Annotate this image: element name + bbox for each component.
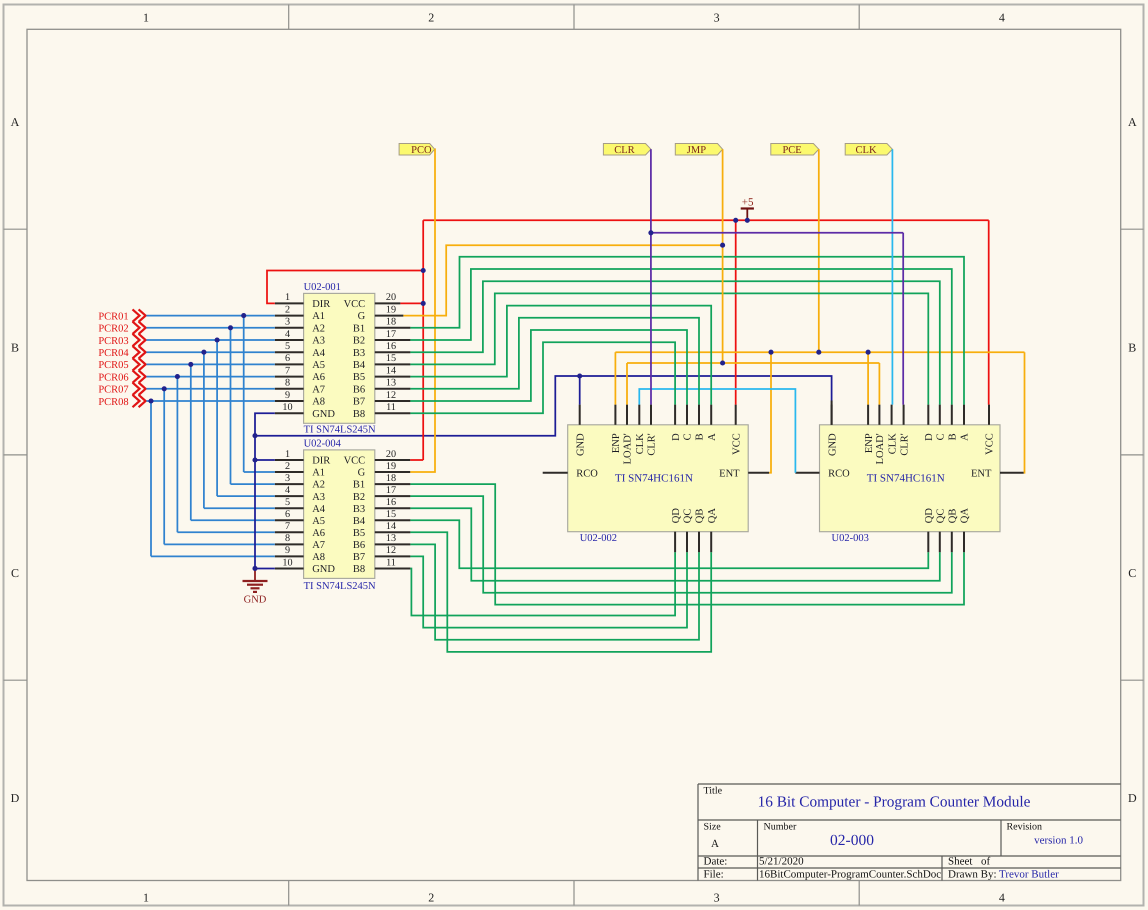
svg-text:B: B (695, 433, 706, 440)
svg-text:B4: B4 (353, 360, 366, 371)
svg-text:A7: A7 (312, 540, 325, 551)
svg-text:B: B (11, 341, 19, 355)
svg-text:File:: File: (704, 869, 724, 881)
svg-text:A: A (707, 433, 718, 441)
svg-text:U02-004: U02-004 (304, 438, 342, 449)
svg-text:11: 11 (386, 402, 396, 413)
svg-text:RCO: RCO (828, 469, 850, 480)
svg-text:QB: QB (695, 509, 706, 524)
svg-text:GND: GND (827, 433, 838, 456)
svg-text:D: D (924, 433, 935, 441)
svg-text:A2: A2 (312, 480, 325, 491)
svg-text:14: 14 (386, 365, 396, 376)
svg-text:C: C (1128, 566, 1136, 580)
svg-text:CLK: CLK (856, 145, 877, 156)
svg-text:A1: A1 (312, 468, 325, 479)
svg-text:8: 8 (285, 533, 290, 544)
svg-text:A8: A8 (312, 552, 325, 563)
svg-text:16 Bit Computer - Program Coun: 16 Bit Computer - Program Counter Module (758, 794, 1031, 811)
svg-text:DIR: DIR (312, 299, 330, 310)
svg-text:PCR04: PCR04 (98, 348, 129, 359)
svg-text:B8: B8 (353, 564, 365, 575)
svg-text:B: B (1128, 341, 1136, 355)
svg-text:B1: B1 (353, 480, 365, 491)
svg-text:B5: B5 (353, 528, 365, 539)
svg-text:B6: B6 (353, 540, 365, 551)
svg-text:13: 13 (386, 533, 396, 544)
svg-text:15: 15 (386, 353, 396, 364)
svg-text:4: 4 (285, 485, 290, 496)
svg-text:ENP: ENP (611, 433, 622, 453)
svg-text:4: 4 (999, 11, 1005, 25)
svg-text:PCE: PCE (782, 145, 801, 156)
svg-text:of: of (981, 856, 991, 868)
svg-text:B5: B5 (353, 372, 365, 383)
svg-text:B3: B3 (353, 348, 365, 359)
svg-text:2: 2 (285, 461, 290, 472)
svg-text:1: 1 (285, 292, 290, 303)
svg-text:A1: A1 (312, 311, 325, 322)
svg-text:B6: B6 (353, 384, 365, 395)
svg-text:18: 18 (386, 317, 396, 328)
svg-text:D: D (671, 433, 682, 441)
svg-text:A: A (711, 838, 719, 850)
svg-text:9: 9 (285, 390, 290, 401)
svg-text:16: 16 (386, 341, 396, 352)
svg-text:QD: QD (671, 508, 682, 524)
svg-text:1: 1 (143, 11, 149, 25)
svg-text:A3: A3 (312, 336, 325, 347)
svg-text:PCR03: PCR03 (98, 336, 128, 347)
svg-text:A: A (1128, 115, 1137, 129)
svg-text:ENP: ENP (864, 433, 875, 453)
svg-text:RCO: RCO (576, 469, 598, 480)
svg-text:Revision: Revision (1007, 822, 1043, 833)
svg-text:VCC: VCC (344, 456, 366, 467)
svg-text:A2: A2 (312, 323, 325, 334)
svg-text:version 1.0: version 1.0 (1034, 835, 1083, 847)
svg-text:16BitComputer-ProgramCounter.S: 16BitComputer-ProgramCounter.SchDoc (759, 869, 941, 881)
svg-text:5/21/2020: 5/21/2020 (759, 856, 804, 868)
svg-text:3: 3 (714, 891, 720, 905)
svg-text:Drawn By:: Drawn By: (948, 869, 997, 881)
svg-text:A4: A4 (312, 348, 326, 359)
svg-text:A5: A5 (312, 360, 325, 371)
svg-text:DIR: DIR (312, 456, 330, 467)
svg-text:16: 16 (386, 497, 396, 508)
svg-text:A6: A6 (312, 372, 325, 383)
svg-text:18: 18 (386, 473, 396, 484)
svg-text:LOAD': LOAD' (875, 433, 886, 464)
svg-text:B: B (948, 433, 959, 440)
svg-text:Number: Number (764, 822, 797, 833)
svg-text:19: 19 (386, 461, 396, 472)
svg-text:B3: B3 (353, 504, 365, 515)
svg-text:17: 17 (386, 329, 396, 340)
svg-text:C: C (936, 433, 947, 440)
svg-text:14: 14 (386, 521, 396, 532)
svg-text:TI SN74LS245N: TI SN74LS245N (304, 581, 376, 592)
svg-text:13: 13 (386, 378, 396, 389)
svg-text:QC: QC (683, 509, 694, 524)
svg-text:VCC: VCC (344, 299, 366, 310)
svg-text:D: D (11, 791, 20, 805)
svg-text:CLK: CLK (635, 433, 646, 454)
svg-text:QA: QA (707, 508, 718, 524)
svg-text:PCO: PCO (411, 145, 432, 156)
svg-text:8: 8 (285, 378, 290, 389)
svg-text:B4: B4 (353, 516, 366, 527)
svg-text:CLR': CLR' (899, 433, 910, 455)
svg-text:G: G (358, 311, 366, 322)
svg-text:4: 4 (285, 329, 290, 340)
svg-text:VCC: VCC (985, 433, 996, 455)
svg-text:U02-003: U02-003 (832, 533, 869, 544)
svg-text:7: 7 (285, 521, 290, 532)
svg-text:4: 4 (999, 891, 1005, 905)
svg-text:QC: QC (936, 509, 947, 524)
svg-text:A: A (960, 433, 971, 441)
svg-text:U02-002: U02-002 (580, 533, 617, 544)
svg-text:12: 12 (386, 390, 396, 401)
svg-text:10: 10 (282, 402, 292, 413)
svg-text:20: 20 (386, 449, 396, 460)
svg-text:+5: +5 (742, 197, 754, 209)
svg-text:7: 7 (285, 365, 290, 376)
svg-text:VCC: VCC (731, 433, 742, 455)
svg-text:10: 10 (282, 557, 292, 568)
svg-text:PCR08: PCR08 (98, 397, 128, 408)
svg-text:Size: Size (704, 822, 722, 833)
svg-text:3: 3 (714, 11, 720, 25)
svg-text:B1: B1 (353, 323, 365, 334)
svg-text:A6: A6 (312, 528, 325, 539)
svg-text:B7: B7 (353, 552, 365, 563)
svg-text:C: C (11, 566, 19, 580)
svg-text:PCR05: PCR05 (98, 360, 128, 371)
svg-text:GND: GND (575, 433, 586, 456)
svg-text:1: 1 (285, 449, 290, 460)
svg-text:5: 5 (285, 341, 290, 352)
svg-text:A7: A7 (312, 384, 325, 395)
svg-text:PCR07: PCR07 (98, 385, 128, 396)
svg-text:12: 12 (386, 545, 396, 556)
svg-text:A3: A3 (312, 492, 325, 503)
svg-text:A8: A8 (312, 397, 325, 408)
svg-text:15: 15 (386, 509, 396, 520)
svg-text:19: 19 (386, 304, 396, 315)
svg-text:A5: A5 (312, 516, 325, 527)
svg-text:CLR: CLR (614, 145, 634, 156)
svg-text:GND: GND (312, 409, 335, 420)
svg-text:B8: B8 (353, 409, 365, 420)
svg-text:2: 2 (428, 891, 434, 905)
svg-text:1: 1 (143, 891, 149, 905)
svg-text:5: 5 (285, 497, 290, 508)
svg-text:ENT: ENT (719, 469, 740, 480)
svg-text:CLK: CLK (887, 433, 898, 454)
svg-text:CLR': CLR' (647, 433, 658, 455)
svg-text:U02-001: U02-001 (304, 282, 341, 293)
svg-text:GND: GND (312, 564, 335, 575)
svg-text:TI SN74HC161N: TI SN74HC161N (615, 473, 693, 485)
svg-text:LOAD': LOAD' (623, 433, 634, 464)
svg-text:3: 3 (285, 473, 290, 484)
svg-text:B2: B2 (353, 492, 365, 503)
svg-text:2: 2 (428, 11, 434, 25)
svg-text:PCR02: PCR02 (98, 324, 128, 335)
svg-text:G: G (358, 468, 366, 479)
svg-text:Sheet: Sheet (948, 856, 972, 868)
svg-text:B7: B7 (353, 397, 365, 408)
svg-text:6: 6 (285, 353, 290, 364)
svg-text:2: 2 (285, 304, 290, 315)
svg-text:11: 11 (386, 557, 396, 568)
svg-text:Date:: Date: (704, 856, 728, 868)
svg-text:02-000: 02-000 (830, 832, 874, 849)
svg-text:GND: GND (244, 594, 267, 605)
svg-text:Trevor Butler: Trevor Butler (999, 869, 1059, 881)
svg-text:A: A (11, 115, 20, 129)
svg-text:9: 9 (285, 545, 290, 556)
svg-text:QA: QA (960, 508, 971, 524)
svg-text:ENT: ENT (971, 469, 992, 480)
svg-text:TI SN74HC161N: TI SN74HC161N (867, 473, 945, 485)
svg-text:20: 20 (386, 292, 396, 303)
svg-text:6: 6 (285, 509, 290, 520)
svg-text:C: C (683, 433, 694, 440)
svg-text:QB: QB (948, 509, 959, 524)
svg-text:TI SN74LS245N: TI SN74LS245N (304, 425, 376, 436)
svg-text:17: 17 (386, 485, 396, 496)
svg-text:PCR06: PCR06 (98, 372, 128, 383)
svg-text:JMP: JMP (687, 145, 706, 156)
svg-text:D: D (1128, 791, 1137, 805)
svg-text:A4: A4 (312, 504, 326, 515)
svg-text:Title: Title (704, 786, 723, 797)
svg-text:3: 3 (285, 317, 290, 328)
svg-text:QD: QD (924, 508, 935, 524)
svg-text:B2: B2 (353, 336, 365, 347)
svg-text:PCR01: PCR01 (98, 311, 128, 322)
